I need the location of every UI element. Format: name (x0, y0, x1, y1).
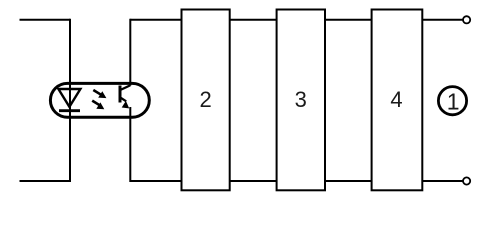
phototransistor Q1 emitter (121, 98, 129, 109)
wire bottom: block 4 to output terminal (422, 180, 463, 182)
svg-text:2: 2 (199, 87, 211, 112)
wire bottom: transistor to block 2 (130, 180, 181, 182)
wire top-left input (20, 19, 71, 21)
light arrow 2 (92, 101, 104, 110)
block 3 (277, 10, 325, 191)
wire top: block 2 to block 3 (230, 19, 277, 21)
block 4 (372, 10, 423, 191)
node 1 circle (438, 87, 466, 115)
LED D1 triangle (58, 89, 80, 107)
svg-text:3: 3 (295, 87, 307, 112)
wire bottom: block 2 to block 3 (230, 180, 277, 182)
optocoupler U1 body (50, 83, 149, 117)
phototransistor Q1 collector (121, 85, 131, 90)
svg-text:4: 4 (390, 87, 402, 112)
wire collector to top (129, 19, 131, 86)
LED D1 cathode bar (59, 109, 80, 112)
terminal bottom-right (463, 177, 470, 184)
block 2 (182, 10, 230, 191)
light arrow 1 (93, 90, 106, 98)
phototransistor Q1 base bar (119, 86, 122, 103)
wire top: block 3 to block 4 (325, 19, 372, 21)
wire top: block 4 to output terminal (422, 19, 463, 21)
wire emitter to bottom (129, 107, 131, 182)
wire top: transistor to block 2 (130, 19, 181, 21)
terminal top-right (463, 16, 470, 23)
wire bottom-left input (20, 180, 71, 182)
wire bottom: block 3 to block 4 (325, 180, 372, 182)
wire left vertical (LED branch) (69, 19, 71, 182)
svg-text:1: 1 (447, 89, 460, 115)
